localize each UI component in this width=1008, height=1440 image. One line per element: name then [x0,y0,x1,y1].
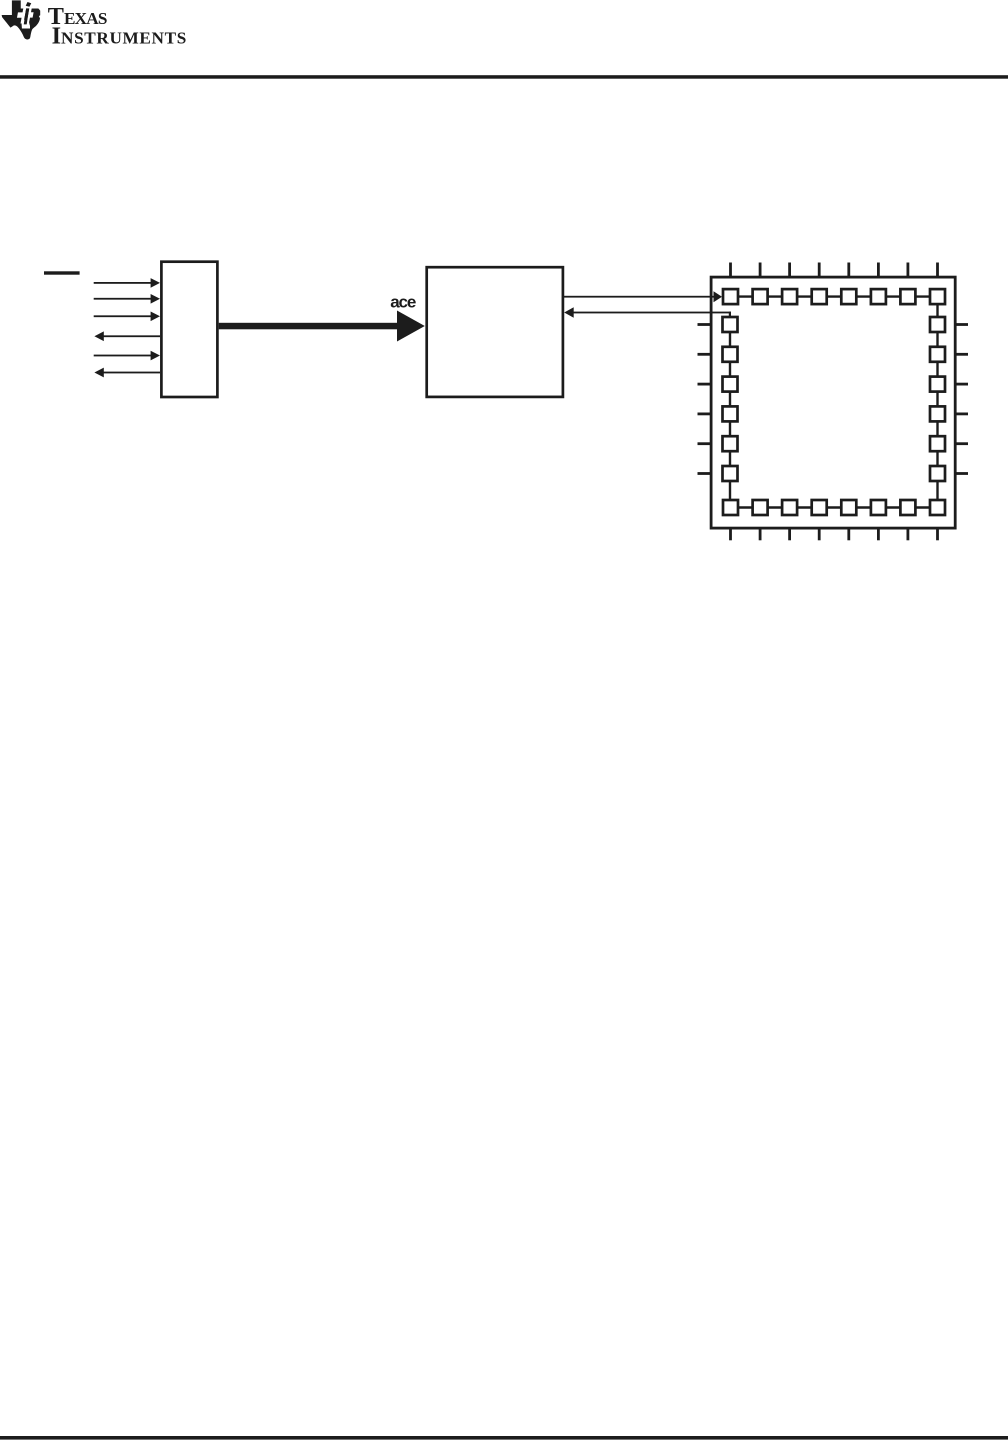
top row wire [731,295,938,297]
chip pins left [698,325,711,474]
wire arrow in 5 [94,351,160,361]
chip pads left column [723,317,738,481]
chip pads right column [930,317,945,481]
wire arrow out 6 [94,368,160,378]
TI logo bug (Texas state with ti) [2,0,41,39]
bottom rule [0,1436,1008,1440]
chip pins top [731,263,938,277]
top rule [0,75,1008,79]
dash mark [44,271,80,274]
left column wire [729,316,731,508]
wire arrow out 4 [94,331,160,341]
wire B from chip [564,307,731,318]
right column wire [936,297,938,508]
wire arrow in 3 [94,311,160,321]
middle box (controller block) [427,267,563,397]
left box (host block) [161,262,217,397]
thick bus arrow [219,311,425,342]
bottom row wire [731,506,938,508]
svg-text:ace: ace [390,292,416,311]
chip pads bottom row [723,500,945,515]
chip pins bottom [731,529,938,541]
chip pad ring connector lines [730,297,938,508]
wire A to chip [564,291,722,302]
chip pins right [957,325,969,474]
wire arrow in 2 [94,294,160,304]
wire arrow in 1 [94,278,160,288]
chip pads top row [723,289,945,304]
chip package outline [711,277,955,528]
